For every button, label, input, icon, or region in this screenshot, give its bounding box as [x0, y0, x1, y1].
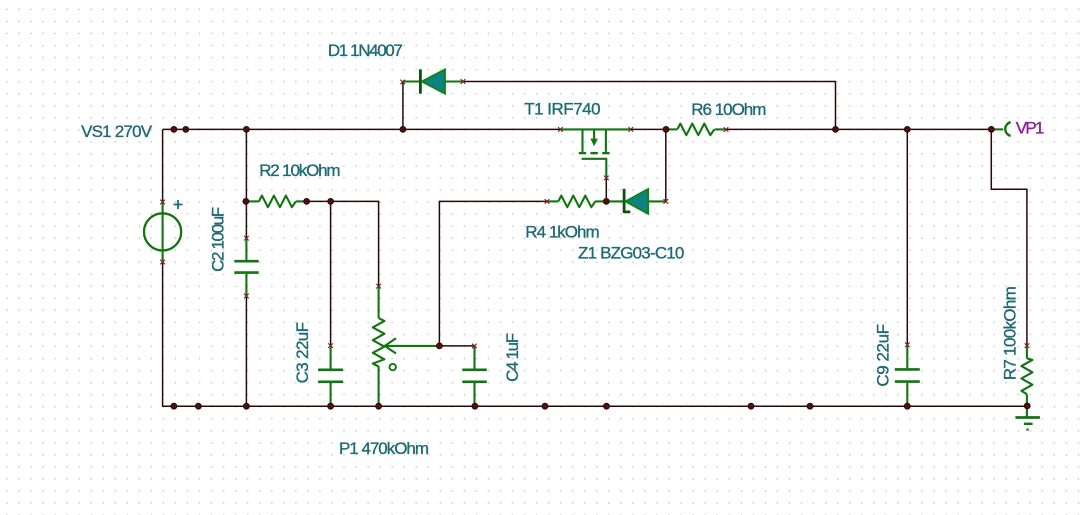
svg-text:R4 1kOhm: R4 1kOhm [525, 223, 599, 242]
svg-text:R6 10Ohm: R6 10Ohm [691, 100, 766, 119]
svg-text:C9 22uF: C9 22uF [873, 324, 892, 387]
svg-text:R2 10kOhm: R2 10kOhm [259, 161, 340, 180]
svg-text:C3 22uF: C3 22uF [293, 322, 312, 383]
svg-text:VP1: VP1 [1016, 118, 1045, 137]
svg-text:VS1 270V: VS1 270V [81, 122, 153, 141]
svg-text:D1 1N4007: D1 1N4007 [328, 41, 403, 60]
svg-text:C2 100uF: C2 100uF [209, 207, 228, 272]
svg-text:Z1 BZG03-C10: Z1 BZG03-C10 [578, 244, 684, 263]
svg-text:R7 100kOhm: R7 100kOhm [1001, 286, 1020, 380]
svg-text:P1 470kOhm: P1 470kOhm [339, 439, 429, 458]
svg-text:T1 IRF740: T1 IRF740 [524, 99, 600, 118]
svg-text:C4 1uF: C4 1uF [503, 333, 522, 382]
